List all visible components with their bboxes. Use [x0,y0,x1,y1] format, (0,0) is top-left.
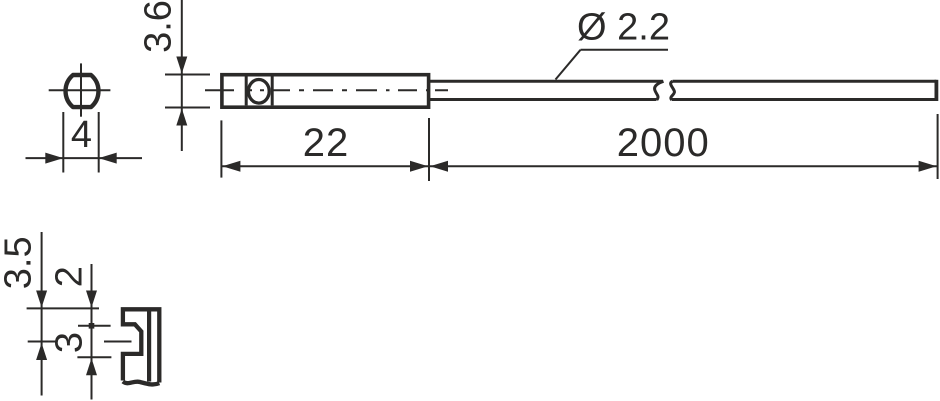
tick at 3.5 bottom (notch center) [28,341,56,343]
extension line right of dim 4 [98,112,100,173]
dimension line 4 [26,157,143,159]
profile inner vertical [147,311,151,382]
cable segment 2 bottom [672,98,937,101]
lower view: dim line 3.5 vertical [41,232,43,308]
terminator dot at 2/3 junction [89,323,95,329]
cable end cap [935,80,939,101]
dim 3.6 vertical line top [181,0,183,108]
notch center line [104,341,132,343]
cable break left S [655,81,664,100]
arrow right (points left) [99,153,117,164]
arrow down 3.5 [36,291,47,308]
svg-text:2000: 2000 [617,121,710,165]
part top edge extension line [27,307,99,309]
crosshair vertical [80,63,82,116]
svg-text:3: 3 [49,332,91,353]
svg-text:3.6: 3.6 [138,0,180,53]
side profile of head [123,309,159,382]
svg-text:4: 4 [71,114,92,156]
lens circle [248,80,269,104]
arrow down 2 [86,291,97,308]
svg-text:Ø 2.2: Ø 2.2 [577,7,670,49]
tick at 2 bottom / 3 top [78,325,111,327]
dimension line 22 and 2000 [221,165,937,167]
arrow at 937 (points right) [919,161,937,172]
center dash-dot line [205,89,448,91]
cable break right S [671,81,675,100]
cable segment 2 top [673,80,937,83]
cable segment 1 top [429,80,663,83]
profile wavy bottom [123,382,159,385]
arrow left (points right) [45,153,63,164]
svg-text:2: 2 [49,266,91,287]
arrow at 221 (points left) [222,161,240,172]
extension line below body right [428,118,430,181]
leader diagonal to cable [556,50,581,80]
vertical line 2/3 lower span [91,308,93,400]
cable segment 1 bottom [429,98,657,101]
arrow up 3.5 [36,343,47,360]
crosshair horizontal [49,89,111,91]
vertical line 3.5 lower span [41,308,43,396]
lower extension tick [165,107,210,109]
arrow up (tip at lower ext line) [176,109,187,126]
leader underline for diameter label [581,49,669,51]
arrow down (tip at upper ext line) [176,57,187,74]
arrow at 429 (points left) [430,161,448,172]
arrow up 3 [86,358,97,375]
tick at 3 bottom [77,356,111,358]
shaft below arrow up [181,109,183,152]
extension line left of dim 4 [62,112,64,173]
divider 1 [245,77,248,106]
sensor head body rectangle [222,75,429,108]
extension line below body left [220,120,222,177]
svg-text:3.5: 3.5 [0,236,40,289]
dim line 2 vertical [91,264,93,308]
svg-text:22: 22 [303,121,350,165]
arrow at 429 (points right) [410,161,428,172]
upper extension tick [165,74,210,76]
extension line below cable end [937,114,939,179]
end view: head cross-section (circle with flats) [66,75,99,107]
divider 2 [271,77,274,106]
